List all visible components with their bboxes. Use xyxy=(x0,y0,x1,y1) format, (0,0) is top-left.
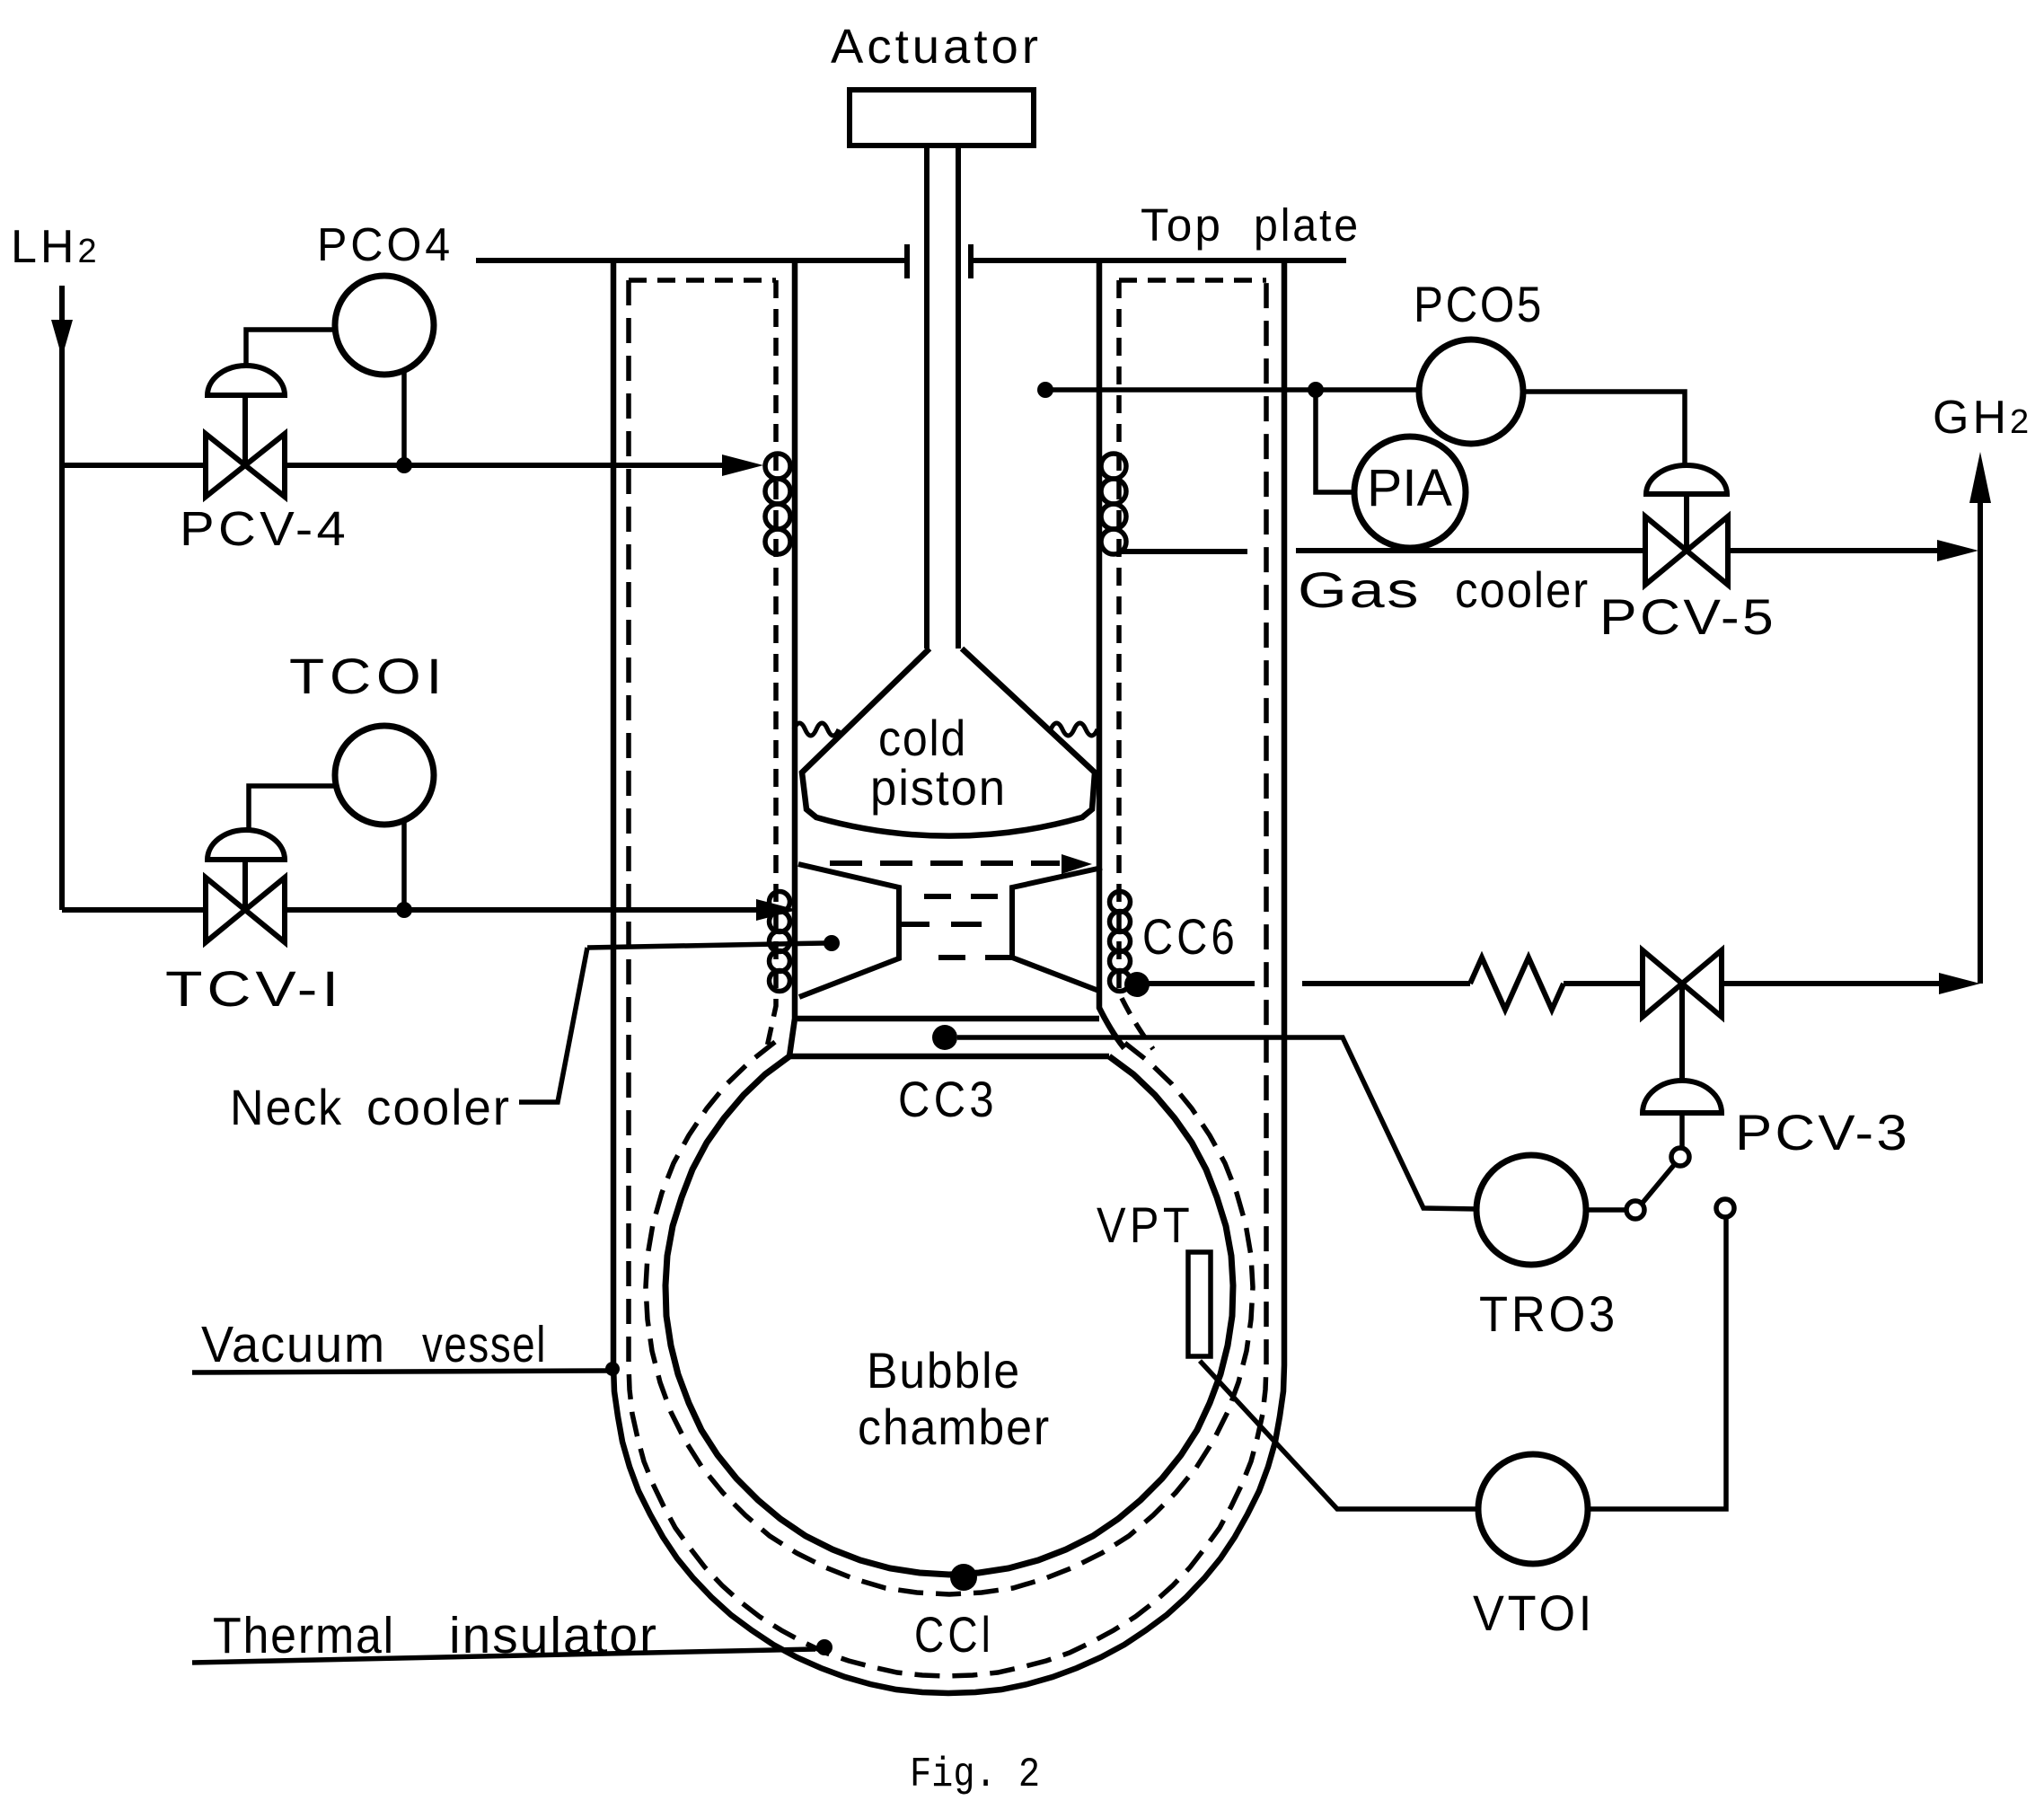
cold piston xyxy=(802,649,1095,836)
svg-text:PCO5: PCO5 xyxy=(1414,276,1544,332)
svg-text:Vacuum: Vacuum xyxy=(201,1316,386,1373)
wire PCV-4 to neck cooler xyxy=(285,463,729,468)
thermal insulator dashed top segment left xyxy=(629,278,776,283)
svg-text:Top: Top xyxy=(1141,199,1223,251)
gas cooler line xyxy=(1296,548,1645,553)
svg-text:CC3: CC3 xyxy=(898,1071,998,1127)
node junction on TCV-1 line xyxy=(396,902,412,918)
wire TCO1 to TCV-1 actuator xyxy=(249,786,336,830)
gauge PCO5 xyxy=(1419,340,1523,444)
leader Neck cooler xyxy=(519,948,587,1102)
svg-text:piston: piston xyxy=(870,759,1007,816)
wire switch to VTO1 xyxy=(1588,1217,1726,1509)
svg-text:VTOI: VTOI xyxy=(1473,1584,1595,1641)
gas cooler coil upper right xyxy=(1101,454,1126,479)
piston lower position dashed line xyxy=(830,860,1060,866)
actuator head xyxy=(850,90,1034,146)
controller TCO1 xyxy=(335,726,434,825)
svg-text:chamber: chamber xyxy=(858,1399,1051,1455)
neck insulation dashed left xyxy=(767,280,776,1047)
neck cooler coil left xyxy=(770,892,790,913)
controller PCO4 xyxy=(335,276,434,375)
valve PCV-5 xyxy=(1645,516,1687,585)
svg-text:cooler: cooler xyxy=(1455,561,1590,618)
wire PCO4 to PCV-4 actuator xyxy=(246,330,336,366)
leader Vacuum vessel xyxy=(192,1371,607,1372)
actuator shaft xyxy=(924,146,929,649)
node neck cooler tap xyxy=(824,935,840,951)
svg-text:CC6: CC6 xyxy=(1142,908,1238,965)
svg-text:cold: cold xyxy=(878,710,967,766)
svg-text:TCV-I: TCV-I xyxy=(165,960,343,1017)
wire LH2 to TCV-1 xyxy=(62,907,206,913)
LH2 inlet wire xyxy=(59,286,65,910)
top plate right segment xyxy=(971,258,1346,263)
chamber top flange lines xyxy=(797,1016,1099,1022)
svg-text:VPT: VPT xyxy=(1097,1196,1194,1253)
node junction on PCV-4 line xyxy=(396,457,412,473)
wire TCV-1 to neck xyxy=(285,907,762,913)
sensor VTO1 xyxy=(1478,1454,1588,1564)
chamber neck wall left xyxy=(789,260,795,1056)
wire VTO1 to VPT xyxy=(1200,1361,1478,1509)
switch contact VTO1 side xyxy=(1716,1199,1734,1217)
thermal insulator dashed top segment right xyxy=(1119,278,1266,283)
switch contact lower xyxy=(1626,1201,1644,1219)
svg-text:PIA: PIA xyxy=(1367,459,1452,517)
svg-text:Thermal: Thermal xyxy=(213,1607,395,1664)
sensor TRO3 xyxy=(1476,1155,1586,1265)
wire PCV-5 to GH2 riser xyxy=(1728,548,1943,553)
gas cooler outlet line xyxy=(1121,549,1247,554)
valve on CC6 line xyxy=(1643,950,1682,1017)
node junction to PIA xyxy=(1308,382,1324,398)
node CC3 xyxy=(932,1025,957,1050)
switch stem xyxy=(1679,1113,1685,1147)
wire TCO1 temperature tap xyxy=(401,822,407,910)
node gas space tap xyxy=(1037,382,1053,398)
GH2 riser wire xyxy=(1978,501,1983,984)
top plate left segment xyxy=(476,258,907,263)
valve PCV-4 xyxy=(206,434,245,497)
node CC1 xyxy=(950,1564,977,1591)
liquid surface wavy right xyxy=(1051,723,1097,736)
wire CC3 to TRO3 xyxy=(957,1037,1476,1209)
valve TCV-1 xyxy=(206,878,245,942)
svg-text:PCV-5: PCV-5 xyxy=(1599,588,1776,645)
displacer left block xyxy=(798,864,899,997)
chamber neck wall right with flare xyxy=(1099,260,1124,1048)
displacer dashed position rows xyxy=(924,894,1009,899)
svg-text:Actuator: Actuator xyxy=(831,20,1042,74)
displacer right block xyxy=(1012,868,1102,992)
liquid surface wavy left xyxy=(794,723,839,736)
wire gas tap to PCO5 xyxy=(1045,387,1419,393)
node CC6 xyxy=(1124,972,1150,997)
wire CC6 gas line xyxy=(1148,981,1255,986)
switch contact upper xyxy=(1671,1148,1689,1166)
svg-text:Neck: Neck xyxy=(230,1079,343,1135)
sensor VPT xyxy=(1188,1252,1211,1356)
actuator PCV-3 xyxy=(1679,984,1685,1080)
leader Thermal insulator xyxy=(192,1649,815,1663)
thermal insulator dashed liner of vacuum vessel xyxy=(629,280,1266,1676)
svg-text:TCOI: TCOI xyxy=(289,648,447,704)
svg-text:PCV-3: PCV-3 xyxy=(1735,1104,1910,1161)
svg-text:Gas: Gas xyxy=(1298,561,1421,618)
wire PCO5 to PCV-5 xyxy=(1523,392,1685,466)
wire neck cooler leader end xyxy=(587,943,824,948)
wire TRO3 to switch xyxy=(1586,1207,1626,1213)
switch lever xyxy=(1643,1165,1674,1203)
svg-text:plate: plate xyxy=(1254,199,1361,251)
wire LH2 to PCV-4 xyxy=(62,463,206,468)
svg-text:Fig. 2: Fig. 2 xyxy=(910,1752,1040,1798)
svg-text:PCO4: PCO4 xyxy=(317,219,454,271)
chamber thermal insulator dashed shell xyxy=(646,1042,1253,1594)
gas cooler coil upper left xyxy=(765,454,790,479)
svg-text:vessel: vessel xyxy=(422,1316,547,1373)
bubble chamber shell xyxy=(665,1056,1233,1575)
indicator PIA xyxy=(1354,437,1466,548)
vacuum vessel xyxy=(613,260,1284,1693)
wire resistor to valve xyxy=(1564,981,1643,986)
neck cooler coil right xyxy=(1110,892,1131,913)
wire junction to PIA xyxy=(1316,390,1356,492)
svg-text:cooler: cooler xyxy=(366,1079,511,1135)
svg-text:Bubble: Bubble xyxy=(867,1342,1021,1399)
svg-text:PCV-4: PCV-4 xyxy=(180,502,349,556)
svg-text:CCl: CCl xyxy=(914,1606,994,1663)
wire valve to GH2 riser xyxy=(1722,981,1944,986)
svg-text:TRO3: TRO3 xyxy=(1479,1285,1618,1342)
wire PCO4 pressure tap xyxy=(401,372,407,465)
heater resistor xyxy=(1470,958,1564,1010)
neck insulation dashed right xyxy=(1119,280,1153,1049)
